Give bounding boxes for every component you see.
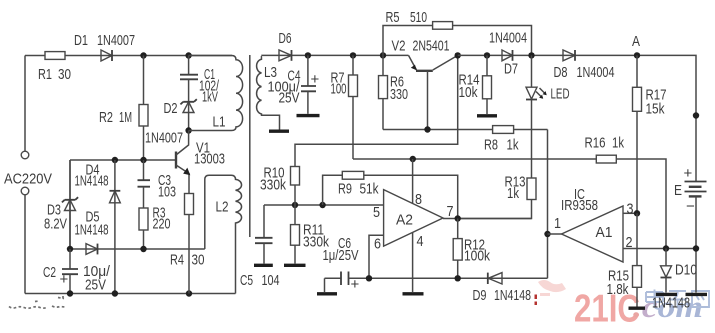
ground R15 xyxy=(629,307,646,310)
node junction D5 R3 xyxy=(140,246,146,252)
label R4 30 xyxy=(170,252,205,269)
node junction rail V2 collector xyxy=(455,52,461,58)
watermark red marks left of 21IC xyxy=(535,295,538,306)
resistor R4 xyxy=(185,194,194,215)
node junction supply row pin8 xyxy=(410,156,416,162)
diode D8 xyxy=(563,50,575,61)
svg-text:1N4148: 1N4148 xyxy=(75,222,109,239)
inductor L3 winding xyxy=(257,55,280,129)
resistor R7 xyxy=(349,55,358,159)
label C4 100u/ 25V xyxy=(268,68,301,107)
label R15 1.8k xyxy=(607,268,630,299)
svg-text:1N4148: 1N4148 xyxy=(494,287,531,304)
wire supply row R7 to R16 corner xyxy=(353,159,666,249)
wire A2 pin4 xyxy=(412,233,414,293)
wire secondary rail V2 to corner xyxy=(458,55,696,181)
ground C5 xyxy=(254,264,273,267)
transformer core xyxy=(249,55,251,237)
resistor R1 xyxy=(45,52,65,60)
wire left AC drop upper xyxy=(24,56,26,152)
label R11 330k xyxy=(303,222,329,251)
label R14 10k xyxy=(459,72,480,102)
wire top rail primary xyxy=(25,55,232,57)
node junction pin5 row R9 riser xyxy=(319,202,325,208)
label D3 8.2V xyxy=(44,202,67,233)
ground D10 xyxy=(656,293,677,296)
resistor R14 xyxy=(483,55,492,114)
transistor V1 emitter lead with arrow xyxy=(176,165,190,194)
svg-text:1: 1 xyxy=(554,215,561,232)
wire R9 branch riser and row xyxy=(323,175,458,218)
label R10 330k xyxy=(260,165,286,194)
inductor L2 winding xyxy=(205,175,242,293)
svg-text:2N5401: 2N5401 xyxy=(413,38,450,55)
resistor R5 xyxy=(433,22,453,30)
node junction base row D4 xyxy=(112,157,118,163)
node junction base row D3 corner xyxy=(69,160,71,249)
wire C1 bottom to collector node xyxy=(188,79,190,130)
transistor V2 base bar xyxy=(416,70,433,72)
node junction pin3 R17 R15 xyxy=(634,210,640,216)
wire LED to R13 xyxy=(531,100,533,179)
transistor V1 base bar xyxy=(175,152,177,169)
wire R4 to bottom rail xyxy=(188,215,190,294)
label R2 1M xyxy=(99,109,132,126)
ground R14 xyxy=(477,114,497,117)
terminal AC lower xyxy=(21,187,29,195)
svg-text:1kV: 1kV xyxy=(202,89,218,106)
zener D3 xyxy=(62,160,78,249)
svg-text:1N4148: 1N4148 xyxy=(652,295,690,312)
svg-text:7: 7 xyxy=(447,203,454,220)
svg-text:A1: A1 xyxy=(596,224,613,241)
wire V1 base row xyxy=(70,159,176,161)
watermark CJK glyph 2 xyxy=(669,291,687,309)
svg-text:1N4004: 1N4004 xyxy=(577,64,615,81)
wire R2 column xyxy=(143,56,145,161)
diode D1 xyxy=(101,50,112,61)
node junction A1 pin1 xyxy=(544,231,550,237)
svg-text:R5: R5 xyxy=(386,9,400,26)
svg-text:AC220V: AC220V xyxy=(4,171,52,188)
node junction C6 row pin6 xyxy=(366,275,372,281)
svg-text:330: 330 xyxy=(390,86,408,103)
svg-text:103: 103 xyxy=(158,184,176,201)
label R9 51k xyxy=(338,181,379,198)
label R6 330 xyxy=(390,74,408,104)
wire A2 pin 8 xyxy=(412,159,414,204)
transistor V2 emitter lead with arrow xyxy=(409,55,417,70)
diode D10 xyxy=(661,249,672,293)
battery E cells xyxy=(685,182,707,197)
op-amp A1 (mirrored) xyxy=(562,206,624,262)
ground C4 xyxy=(297,114,320,117)
node junction rail R14 xyxy=(484,52,490,58)
svg-text:D9: D9 xyxy=(473,287,487,304)
ground R11 xyxy=(284,264,306,267)
label V1 13003 xyxy=(194,140,225,168)
svg-text:1k: 1k xyxy=(612,135,624,152)
label R7 100 xyxy=(331,70,347,98)
wire C1 top stub xyxy=(188,56,190,75)
node junction pin2 row D10 R16 xyxy=(663,245,669,251)
resistor R16 xyxy=(596,155,616,163)
svg-text:5: 5 xyxy=(373,204,380,221)
svg-text:220: 220 xyxy=(153,216,171,233)
watermark CJK glyph 3 xyxy=(692,291,709,307)
wire V2 base column xyxy=(427,71,429,130)
svg-text:L2: L2 xyxy=(216,199,229,216)
svg-text:10k: 10k xyxy=(459,84,478,101)
node junction pin7 R9 R12 xyxy=(455,215,461,221)
wire base feedback row R6 to R8 corner xyxy=(383,129,548,131)
node junction base row V2 xyxy=(424,126,430,132)
svg-text:30: 30 xyxy=(58,66,71,83)
wire D5 row xyxy=(70,248,205,250)
wire left AC drop lower xyxy=(24,195,26,294)
watermark faint dotted text bottom-left xyxy=(9,296,65,308)
capacitor C3 xyxy=(138,180,151,187)
resistor R2 xyxy=(139,105,148,127)
wire battery bottom column xyxy=(695,196,697,292)
node junction bottom rail D4 xyxy=(112,290,118,296)
svg-text:LED: LED xyxy=(551,86,570,103)
svg-text:R9: R9 xyxy=(338,181,352,198)
node junction rail C4 xyxy=(305,52,311,58)
label R1 30 xyxy=(38,66,71,83)
capacitor C4 xyxy=(301,55,316,113)
svg-text:D10: D10 xyxy=(675,262,697,279)
svg-text:104: 104 xyxy=(262,272,280,289)
node junction rail R7 xyxy=(350,52,356,58)
svg-text:30: 30 xyxy=(192,252,205,269)
svg-text:1μ/25V: 1μ/25V xyxy=(323,247,359,264)
svg-text:D7: D7 xyxy=(504,61,518,78)
watermark 21IC xyxy=(574,288,640,331)
label D4 1N4148 xyxy=(75,162,109,190)
LED xyxy=(526,55,547,99)
svg-text:25V: 25V xyxy=(279,90,300,107)
svg-text:R1: R1 xyxy=(38,66,52,83)
wire C3 top stub xyxy=(143,160,145,180)
node junction battery top xyxy=(693,112,699,118)
node junction top rail R2 xyxy=(140,52,146,58)
node junction top rail C1 xyxy=(185,52,191,58)
node junction pin2 row battery xyxy=(693,245,699,251)
wire bottom rail primary xyxy=(25,293,236,295)
label IC IR9358 xyxy=(561,186,598,214)
capacitor C5 xyxy=(255,205,273,264)
svg-text:2: 2 xyxy=(626,234,633,251)
svg-text:D8: D8 xyxy=(554,64,568,81)
svg-text:1M: 1M xyxy=(119,109,132,126)
node junction rail R5 R6 xyxy=(380,52,386,58)
node A junction xyxy=(634,52,640,58)
label D8 1N4004 xyxy=(554,64,615,81)
wire A2 pin5 row xyxy=(264,204,384,206)
transistor V2 collector lead xyxy=(433,55,458,70)
resistor R3 xyxy=(139,208,148,230)
svg-text:1N4007: 1N4007 xyxy=(145,130,183,147)
svg-text:C5: C5 xyxy=(240,272,253,289)
resistor R13 xyxy=(458,178,536,219)
svg-text:1N4148: 1N4148 xyxy=(75,173,109,190)
svg-text:+: + xyxy=(60,271,69,288)
diode D7 xyxy=(502,50,513,61)
svg-text:100k: 100k xyxy=(464,248,490,265)
label R17 15k xyxy=(646,87,667,118)
transistor V1 collector lead xyxy=(176,131,189,156)
label R12 100k xyxy=(464,237,490,265)
svg-text:E: E xyxy=(674,182,682,199)
svg-text:C2: C2 xyxy=(43,264,56,281)
resistor R12 xyxy=(453,219,462,279)
watermark pink blobs xyxy=(538,280,566,296)
svg-text:R8: R8 xyxy=(484,137,498,154)
diode D4 xyxy=(110,160,121,294)
resistor R6 xyxy=(379,55,388,129)
label R16 1k xyxy=(585,135,625,152)
wire A1 pin3 stub xyxy=(623,212,637,214)
resistor R10 xyxy=(291,167,300,206)
svg-text:51k: 51k xyxy=(360,181,379,198)
diode D9 xyxy=(488,273,502,284)
resistor R15 xyxy=(633,213,642,306)
svg-text:1k: 1k xyxy=(507,137,519,154)
svg-text:3: 3 xyxy=(627,201,634,218)
svg-text:13003: 13003 xyxy=(194,151,225,168)
ground L3 xyxy=(269,129,289,132)
svg-text:IR9358: IR9358 xyxy=(561,197,598,214)
node junction C6 row R12 xyxy=(455,275,461,281)
svg-text:6: 6 xyxy=(374,236,381,253)
wire secondary rail D6 to V2 emitter xyxy=(266,54,409,56)
svg-text:V2: V2 xyxy=(392,38,406,55)
svg-text:25V: 25V xyxy=(85,277,106,294)
node junction collector C1 D2 L1 xyxy=(185,127,191,133)
svg-text:15k: 15k xyxy=(646,101,665,118)
svg-text:D2: D2 xyxy=(164,100,178,117)
svg-text:R4: R4 xyxy=(170,252,184,269)
label C5 104 xyxy=(240,272,280,289)
svg-text:100: 100 xyxy=(331,81,347,98)
svg-text:D6: D6 xyxy=(279,30,292,47)
wire A2 pin7 output row xyxy=(443,218,532,220)
svg-text:1k: 1k xyxy=(507,185,519,202)
svg-text:+: + xyxy=(311,71,320,88)
terminal AC upper xyxy=(21,151,29,159)
svg-text:510: 510 xyxy=(410,9,427,26)
op-amp A2 xyxy=(384,190,443,247)
svg-text:4: 4 xyxy=(417,233,424,250)
resistor R9 xyxy=(342,171,364,179)
node junction base row R2 C3 xyxy=(140,157,146,163)
node junction rail R5 LED xyxy=(528,52,534,58)
resistor R8 xyxy=(493,126,514,134)
svg-text:D1: D1 xyxy=(74,32,88,49)
svg-text:A: A xyxy=(632,33,640,50)
svg-text:1.8k: 1.8k xyxy=(607,281,629,298)
svg-text:330k: 330k xyxy=(260,177,286,194)
ground battery negative xyxy=(686,293,708,296)
node junction bottom rail C2 xyxy=(67,290,73,296)
ground A2 pin4 xyxy=(403,292,424,295)
label D9 1N4148 xyxy=(473,287,532,304)
wire C6 row to D9 to pin1 corner xyxy=(349,277,548,279)
svg-text:R16: R16 xyxy=(585,135,606,152)
label D1 1N4007 xyxy=(74,32,135,49)
capacitor C2 xyxy=(62,249,78,294)
diode D5 xyxy=(86,244,98,255)
svg-text:R2: R2 xyxy=(99,109,113,126)
svg-text:+: + xyxy=(684,165,693,182)
label R3 220 xyxy=(153,205,171,233)
label D5 1N4148 xyxy=(75,209,109,239)
node junction bottom rail R4 xyxy=(186,290,192,296)
wire A1 pin1 stub xyxy=(548,233,562,235)
wire A1 pin2 row to battery xyxy=(623,248,696,250)
node junction pin5 row R10 R11 xyxy=(292,202,298,208)
diode D6 xyxy=(279,50,292,61)
svg-text:−: − xyxy=(686,198,695,215)
zener D2 xyxy=(180,99,196,112)
label R13 1k xyxy=(505,174,526,203)
svg-text:1N4004: 1N4004 xyxy=(489,30,527,47)
label C1 102/ 1kV xyxy=(199,66,220,106)
svg-text:1N4007: 1N4007 xyxy=(97,32,135,49)
watermark CJK glyph 1 xyxy=(646,290,663,310)
label 10u/25V xyxy=(83,263,111,294)
label R8 1k xyxy=(484,137,519,154)
label V2 2N5401 xyxy=(392,38,450,55)
label C3 103 xyxy=(158,172,176,201)
capacitor C1 xyxy=(180,75,198,80)
resistor R11 xyxy=(291,205,300,264)
svg-text:A2: A2 xyxy=(396,212,413,229)
capacitor C6 xyxy=(325,272,349,293)
ground C6 xyxy=(317,292,337,295)
resistor R17 xyxy=(633,55,642,213)
wire R8 corner down to A1 pin1 column xyxy=(547,130,549,279)
svg-text:L1: L1 xyxy=(213,114,226,131)
watermark .com script xyxy=(633,289,703,324)
node junction D5 left D3 C2 xyxy=(67,246,73,252)
svg-text:8.2V: 8.2V xyxy=(44,216,67,233)
label C6 1u/25V xyxy=(323,235,359,264)
label R5 510 xyxy=(386,9,428,26)
wire A2 pin6 xyxy=(369,235,384,278)
wire R5 branch xyxy=(383,26,532,56)
inductor L1 winding xyxy=(189,56,243,131)
wire C3 to R3 xyxy=(143,187,145,249)
wire V2 collector to R10 link xyxy=(295,55,458,166)
